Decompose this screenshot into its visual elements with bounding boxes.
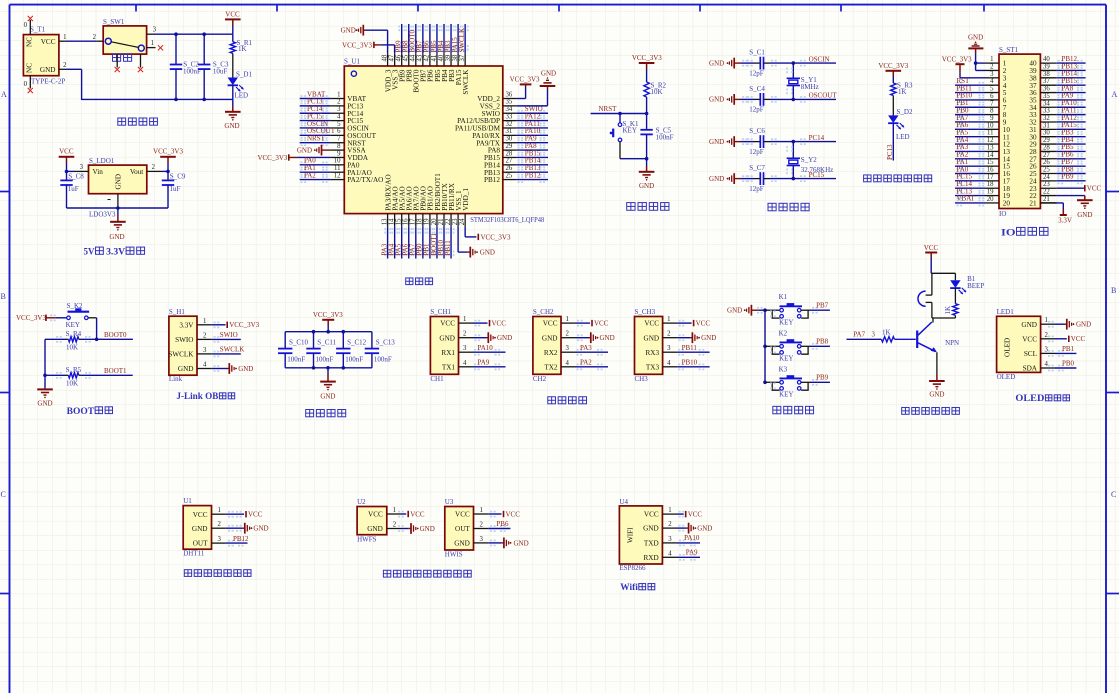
resistor S_R2 10K <box>644 82 649 97</box>
wire/net PA1 <box>300 171 331 173</box>
svg-text:2: 2 <box>463 331 467 338</box>
junction <box>202 32 206 36</box>
svg-text:NRST: NRST <box>307 135 326 143</box>
wire/net PA9 <box>517 142 548 144</box>
junction <box>792 98 796 102</box>
svg-text:100nF: 100nF <box>287 355 305 363</box>
caption main chip <box>406 278 413 285</box>
junction <box>792 177 796 181</box>
MCU pin 9 VDDA <box>330 156 344 158</box>
S_ST1 pin 27 (right) <box>1040 158 1056 160</box>
MCU pin 18 PB0/AO (bottom) <box>422 214 424 227</box>
svg-text:15: 15 <box>987 159 994 166</box>
junction <box>763 345 767 349</box>
svg-text:VCC: VCC <box>506 510 521 518</box>
alarm bottom node wire <box>932 317 956 319</box>
svg-text:TXD: TXD <box>644 540 659 548</box>
wire/net PA12 <box>517 120 548 122</box>
svg-text:BOOT: BOOT <box>67 406 95 417</box>
svg-text:17: 17 <box>410 218 417 225</box>
svg-text:0: 0 <box>24 81 28 88</box>
svg-text:GND: GND <box>109 233 124 241</box>
wire/net PB6 (U3) <box>488 528 510 530</box>
svg-text:18: 18 <box>987 181 994 188</box>
wire/net PB12 <box>517 179 548 181</box>
svg-text:VCC_3V3: VCC_3V3 <box>229 321 259 329</box>
wire/net PA2 <box>300 179 331 181</box>
svg-text:PA10: PA10 <box>478 344 494 352</box>
wire/net SWIO <box>517 112 548 114</box>
svg-text:VCC: VCC <box>924 244 939 252</box>
svg-text:20: 20 <box>431 218 438 225</box>
svg-text:2: 2 <box>1045 332 1049 339</box>
svg-text:3: 3 <box>480 536 484 543</box>
junction <box>763 308 767 312</box>
svg-text:CH3: CH3 <box>635 375 649 383</box>
svg-text:C: C <box>1111 490 1116 499</box>
wire/net SWCLK (H1) <box>212 353 241 355</box>
bottom pins of S_SW1 <box>116 54 118 67</box>
svg-text:31: 31 <box>1043 122 1050 129</box>
wire S_CH3 pin1 to VCC <box>677 322 692 324</box>
wire/net PB7 (top) <box>422 24 424 53</box>
S_ST1 pin 24 (right) <box>1040 180 1056 182</box>
wire/net PA5 (bottom) <box>401 226 403 258</box>
S_ST1 pin 3 (left) <box>985 77 999 79</box>
svg-text:VCC_3V3: VCC_3V3 <box>510 75 540 83</box>
MCU pin 10 PA0 <box>330 164 344 166</box>
svg-text:1K: 1K <box>944 306 952 315</box>
svg-text:PA2: PA2 <box>580 359 592 367</box>
svg-text:S_Y2: S_Y2 <box>801 156 817 164</box>
wire/net PB12 (ST1 right) <box>1057 62 1086 64</box>
wire/net PB0 (ST1 left) <box>955 114 985 116</box>
svg-text:37: 37 <box>459 54 466 61</box>
S_ST1 pin 37 (right) <box>1040 84 1056 86</box>
S_ST1 pin 5 (left) <box>985 92 999 94</box>
wire/net PA3 (bottom) <box>387 226 389 258</box>
S_ST1 pin 32 (right) <box>1040 121 1056 123</box>
svg-text:2: 2 <box>93 34 97 41</box>
svg-text:NC: NC <box>26 63 34 73</box>
LED S_D1 <box>228 78 238 86</box>
svg-text:28: 28 <box>1043 144 1050 151</box>
svg-text:KEY: KEY <box>623 127 637 135</box>
MCU pin 14 PA4/AO (bottom) <box>394 214 396 227</box>
svg-text:7: 7 <box>990 100 994 107</box>
svg-text:GND: GND <box>439 334 455 342</box>
svg-text:2: 2 <box>668 521 672 528</box>
capacitor S_C3 10uF <box>203 34 205 64</box>
MCU pin 12 PA2/TX/AO <box>330 179 344 181</box>
svg-text:S_C1: S_C1 <box>749 49 765 57</box>
svg-text:RXD: RXD <box>644 554 659 562</box>
pin 1 VCC of S_T1 <box>59 40 67 42</box>
svg-text:42: 42 <box>424 54 431 61</box>
S_ST1 pin 38 (right) <box>1040 77 1056 79</box>
S_ST1 pin 14 (left) <box>985 158 999 160</box>
collector wire <box>932 318 934 323</box>
wire/net PB1 (OLED) <box>1055 352 1076 354</box>
svg-text:GND: GND <box>600 334 615 342</box>
svg-text:PB9: PB9 <box>1062 173 1075 181</box>
svg-text:3: 3 <box>337 106 341 113</box>
wire LED1 pin2 to VCC <box>1055 338 1067 340</box>
MCU pin 24 VDD_1 (bottom) <box>464 214 466 227</box>
svg-text:DHT11: DHT11 <box>183 550 205 558</box>
wire/net PA15 (ST1 right) <box>1057 128 1086 130</box>
capacitor S_C8 1uF <box>66 171 68 180</box>
svg-text:VCC_3V3: VCC_3V3 <box>257 154 287 162</box>
svg-text:17: 17 <box>987 174 994 181</box>
svg-text:3.3V: 3.3V <box>1058 217 1072 225</box>
ground GND above MCU right <box>547 86 549 90</box>
junction <box>342 366 346 370</box>
svg-text:SWIO: SWIO <box>175 336 193 344</box>
svg-text:48: 48 <box>381 54 388 61</box>
svg-text:K2: K2 <box>779 329 788 337</box>
svg-text:S_U1: S_U1 <box>344 58 360 66</box>
svg-text:PA9: PA9 <box>686 548 698 556</box>
wire/net PB1 (bottom) <box>429 226 431 258</box>
svg-text:Link: Link <box>169 375 183 383</box>
pin 2 of S_SW1 <box>96 40 103 42</box>
svg-text:GND: GND <box>644 334 660 342</box>
key K1 <box>765 309 780 311</box>
MCU pin 19 PB1/AO (bottom) <box>429 214 431 227</box>
MCU pin 7 NRST <box>330 142 344 144</box>
svg-text:GND: GND <box>929 391 944 399</box>
wire filter top rail <box>285 331 372 333</box>
connector S_ST1 40-pin IO header <box>999 54 1040 208</box>
svg-text:GND: GND <box>727 307 742 315</box>
no-ERC marker top S_T1 <box>28 16 33 21</box>
power port GND bottom of MCU <box>467 251 470 253</box>
svg-text:S_CH2: S_CH2 <box>533 308 554 316</box>
wire/net SWIO (H1) <box>212 338 241 340</box>
ground GND power circuit <box>232 99 234 106</box>
crystal S_Y2 32.768KHz <box>792 142 794 159</box>
wire ST1 pin23 to VCC <box>1057 187 1085 189</box>
MCU pin 11 PA1/AO <box>330 171 344 173</box>
svg-text:36: 36 <box>506 91 513 98</box>
svg-text:18: 18 <box>417 218 424 225</box>
caption temperature-humidity module <box>184 570 191 577</box>
svg-text:2: 2 <box>990 63 994 70</box>
MCU pin 4 PC15 <box>330 120 344 122</box>
svg-text:SWCLK: SWCLK <box>462 69 470 95</box>
svg-text:SWCLK: SWCLK <box>458 28 466 53</box>
svg-text:32.768KHz: 32.768KHz <box>801 166 833 174</box>
svg-text:41: 41 <box>431 55 438 62</box>
wire S_CH1 pin1 to VCC <box>473 322 488 324</box>
svg-text:2: 2 <box>393 522 397 529</box>
MCU pin 38 PA15 (top) <box>457 53 459 66</box>
svg-text:25: 25 <box>506 172 513 179</box>
S_ST1 pin 2 (left) <box>985 69 999 71</box>
svg-text:A: A <box>1 90 7 99</box>
svg-text:PB6: PB6 <box>496 520 509 528</box>
svg-text:PA2/TX/AO: PA2/TX/AO <box>347 176 383 184</box>
svg-text:25: 25 <box>1043 167 1050 174</box>
svg-text:24: 24 <box>459 218 466 225</box>
svg-text:TYPE-C-2P: TYPE-C-2P <box>31 78 65 86</box>
svg-text:SWCLK: SWCLK <box>168 351 194 359</box>
svg-text:1uF: 1uF <box>68 185 79 193</box>
caption crystal circuit <box>768 203 776 210</box>
wire LED1 pin1 to GND <box>1055 323 1065 325</box>
svg-text:SWCLK: SWCLK <box>220 346 245 354</box>
power port VCC_3V3 above MCU right <box>525 84 527 86</box>
sheet border frame <box>10 4 1107 6</box>
wire U2 pin2 to GND <box>402 528 409 530</box>
svg-text:GND: GND <box>542 334 558 342</box>
regulator S_LDO1 LDO3V3 <box>89 165 147 194</box>
wire/net PB7 (ST1 right) <box>1057 165 1086 167</box>
connector S_H1 J-Link <box>169 316 197 375</box>
svg-text:37: 37 <box>1043 78 1050 85</box>
wire/net PA1 (ST1 left) <box>955 165 985 167</box>
svg-text:1: 1 <box>566 316 569 323</box>
svg-text:S_C12: S_C12 <box>347 339 367 347</box>
svg-text:10uF: 10uF <box>213 68 228 76</box>
wire/net SWCLK (top) <box>464 24 466 53</box>
svg-text:4: 4 <box>566 360 570 367</box>
svg-text:Vin: Vin <box>93 168 104 176</box>
wire H1 pin4 to GND <box>212 368 228 370</box>
MCU pin 3 PC14 <box>330 112 344 114</box>
svg-text:PB12: PB12 <box>525 171 541 179</box>
wire/net PB3 (ST1 right) <box>1057 136 1086 138</box>
svg-text:LED: LED <box>896 133 910 141</box>
wire/net PB10 (bottom) <box>443 226 445 258</box>
wire/net OSCIN <box>300 127 331 129</box>
MCU pin 34 SWIO <box>503 112 517 114</box>
wire/net PC13 (ST1 left) <box>955 195 985 197</box>
svg-text:VCC_3V3: VCC_3V3 <box>153 148 183 156</box>
wire/net PB11 (bottom) <box>450 226 452 258</box>
key K2 <box>765 345 780 347</box>
svg-text:GND: GND <box>709 96 724 104</box>
svg-text:S_C6: S_C6 <box>749 127 765 135</box>
wire/net PB4 (top) <box>443 24 445 53</box>
svg-text:VCC: VCC <box>696 320 711 328</box>
MCU pin 20 PB2/BOOT1 (bottom) <box>436 214 438 227</box>
capacitor S_C5 100nF <box>646 114 648 130</box>
wire filter bottom rail <box>285 367 372 369</box>
svg-text:2: 2 <box>203 332 207 339</box>
capacitor S_C12 100nF <box>342 332 344 349</box>
svg-text:28: 28 <box>506 150 513 157</box>
svg-text:PA7: PA7 <box>853 331 865 339</box>
svg-text:3: 3 <box>203 347 207 354</box>
svg-text:GND: GND <box>480 248 495 256</box>
svg-text:S_C10: S_C10 <box>289 339 309 347</box>
S_ST1 pin 18 (left) <box>985 187 999 189</box>
svg-text:13: 13 <box>987 144 994 151</box>
svg-text:PB12: PB12 <box>233 535 249 543</box>
svg-text:3.3V: 3.3V <box>179 321 194 329</box>
wire/net PA10 <box>517 134 548 136</box>
svg-text:33: 33 <box>506 113 513 120</box>
svg-text:A: A <box>1112 90 1118 99</box>
wire/net PA8 (ST1 right) <box>1057 92 1086 94</box>
svg-text:19: 19 <box>987 189 994 196</box>
S_ST1 pin 15 (left) <box>985 165 999 167</box>
wire/net PB8 (ST1 right) <box>1057 173 1086 175</box>
wire/net PB5 (ST1 right) <box>1057 150 1086 152</box>
MCU pin 41 PB5 (top) <box>436 53 438 66</box>
svg-text:1: 1 <box>218 507 221 514</box>
MCU pin 22 PB11/RX (bottom) <box>450 214 452 227</box>
svg-text:GND: GND <box>297 146 312 154</box>
svg-text:S_D1: S_D1 <box>236 70 252 78</box>
MCU pin 30 PA9/TX <box>503 142 517 144</box>
wire/net PB8 <box>810 345 830 347</box>
no-ERC markers S_SW1 bottom <box>115 67 120 72</box>
wire/net PA10 (ST1 right) <box>1057 106 1086 108</box>
svg-text:1: 1 <box>1045 317 1048 324</box>
wire S_C7 to net PC15 <box>764 178 771 180</box>
svg-text:IO: IO <box>999 210 1006 218</box>
caption filter circuit <box>306 410 314 417</box>
wire/net PA2 (S_CH2) <box>576 366 609 368</box>
svg-text:26: 26 <box>506 165 513 172</box>
svg-text:VCC: VCC <box>688 511 703 519</box>
svg-text:STM32F103C8T6_LQFP48: STM32F103C8T6_LQFP48 <box>470 216 544 224</box>
svg-text:10K: 10K <box>66 380 78 388</box>
svg-text:46: 46 <box>396 54 403 61</box>
capacitor S_C1 12pF <box>759 57 761 70</box>
svg-text:39: 39 <box>445 54 452 61</box>
svg-text:10K: 10K <box>66 344 78 352</box>
svg-text:RX1: RX1 <box>441 349 455 357</box>
pin 3 of S_SW1 <box>147 33 154 35</box>
svg-text:GND: GND <box>639 182 654 190</box>
wire MCU pin23 VSS_1 to GND <box>457 226 459 252</box>
svg-text:GND: GND <box>709 175 724 183</box>
svg-text:S_C9: S_C9 <box>170 172 186 180</box>
svg-text:2: 2 <box>566 331 570 338</box>
wire/net PA12 (ST1 right) <box>1057 121 1086 123</box>
ground GND (LDO) <box>117 208 119 215</box>
svg-text:S_C11: S_C11 <box>317 339 336 347</box>
MCU pin 33 PA12/USB/DP <box>503 120 517 122</box>
wire ST1 pin22 to GND <box>1057 195 1085 197</box>
svg-text:PB7: PB7 <box>816 302 829 310</box>
svg-text:6: 6 <box>337 128 341 135</box>
wire VCC rail top <box>154 33 233 35</box>
wire/net PB9 <box>810 381 830 383</box>
svg-text:44: 44 <box>410 54 417 61</box>
wire ground rail bottom <box>82 98 233 100</box>
svg-text:S_C8: S_C8 <box>68 172 84 180</box>
wire/net PA10 (U4) <box>677 542 700 544</box>
crystal S_Y1 8MHz <box>792 63 794 78</box>
svg-text:CH2: CH2 <box>533 375 547 383</box>
svg-text:23: 23 <box>1043 181 1050 188</box>
svg-text:3: 3 <box>668 536 672 543</box>
svg-text:40: 40 <box>438 54 445 61</box>
caption power circuit <box>118 118 126 125</box>
svg-text:OLED: OLED <box>1015 393 1044 404</box>
svg-text:LDO3V3: LDO3V3 <box>89 211 116 219</box>
svg-text:4: 4 <box>668 550 672 557</box>
svg-text:24: 24 <box>1043 174 1050 181</box>
svg-text:OSCOUT: OSCOUT <box>809 92 838 100</box>
wire/net PA7 (ST1 left) <box>955 121 985 123</box>
svg-text:10K: 10K <box>651 88 663 96</box>
junction <box>792 140 796 144</box>
wire S_CH1 pin2 to GND <box>473 337 486 339</box>
keys left rail <box>764 310 766 382</box>
svg-text:GND: GND <box>541 70 556 78</box>
svg-text:GND: GND <box>341 26 356 34</box>
key S_K1 (reset button) <box>619 114 621 124</box>
svg-text:GND: GND <box>192 525 208 533</box>
svg-text:GND: GND <box>1077 211 1092 219</box>
svg-text:VCC_3V3: VCC_3V3 <box>632 54 662 62</box>
svg-text:12: 12 <box>987 137 994 144</box>
junction <box>618 112 622 116</box>
S_ST1 pin 6 (left) <box>985 99 999 101</box>
MCU pin 36 VDD_2 <box>503 98 517 100</box>
wire/net PB11 (ST1 left) <box>955 92 985 94</box>
svg-text:8: 8 <box>990 108 994 115</box>
MCU pin 27 PB14 <box>503 164 517 166</box>
svg-text:VCC: VCC <box>594 320 609 328</box>
svg-text:1uF: 1uF <box>170 185 181 193</box>
svg-text:2: 2 <box>667 331 671 338</box>
MCU pin 2 PC13 <box>330 105 344 107</box>
svg-text:35: 35 <box>506 99 513 106</box>
wire/net PA5 (ST1 left) <box>955 136 985 138</box>
svg-text:1: 1 <box>463 316 466 323</box>
wire/net PC13 <box>300 105 331 107</box>
S_ST1 pin 17 (left) <box>985 180 999 182</box>
svg-text:1: 1 <box>151 40 154 47</box>
svg-text:VCC: VCC <box>248 511 263 519</box>
svg-text:OSCIN: OSCIN <box>809 55 830 63</box>
S_ST1 pin 35 (right) <box>1040 99 1056 101</box>
svg-text:CH1: CH1 <box>430 375 444 383</box>
wire key bottom to C5 <box>620 158 647 160</box>
svg-text:30: 30 <box>1043 130 1050 137</box>
svg-text:PB10: PB10 <box>682 359 698 367</box>
svg-text:VCC_3V3: VCC_3V3 <box>313 311 343 319</box>
svg-text:U3: U3 <box>445 498 454 506</box>
wire/net PB15 (ST1 right) <box>1057 84 1086 86</box>
wire S_CH2 pin1 to VCC <box>576 322 591 324</box>
svg-text:11: 11 <box>987 130 994 137</box>
pin 1 GND of LDO <box>117 194 119 208</box>
wire/net PA8 <box>517 149 548 151</box>
svg-text:WIFI: WIFI <box>627 527 635 543</box>
svg-text:TX1: TX1 <box>442 363 456 371</box>
svg-text:PB11: PB11 <box>444 240 452 256</box>
capacitor S_C10 100nF <box>284 332 286 349</box>
MCU pin 5 OSCIN <box>330 127 344 129</box>
svg-text:7: 7 <box>337 136 341 143</box>
MCU pin 6 OSCOUT <box>330 134 344 136</box>
wire S_T1 pin2 down to ground rail <box>67 68 82 70</box>
svg-text:10: 10 <box>987 122 994 129</box>
module U4 ESP8266 WIFI <box>619 506 662 564</box>
wire S_C6 to net PC14 <box>764 141 771 143</box>
svg-text:23: 23 <box>452 218 459 225</box>
junction <box>645 157 649 161</box>
svg-text:OLED: OLED <box>997 373 1016 381</box>
